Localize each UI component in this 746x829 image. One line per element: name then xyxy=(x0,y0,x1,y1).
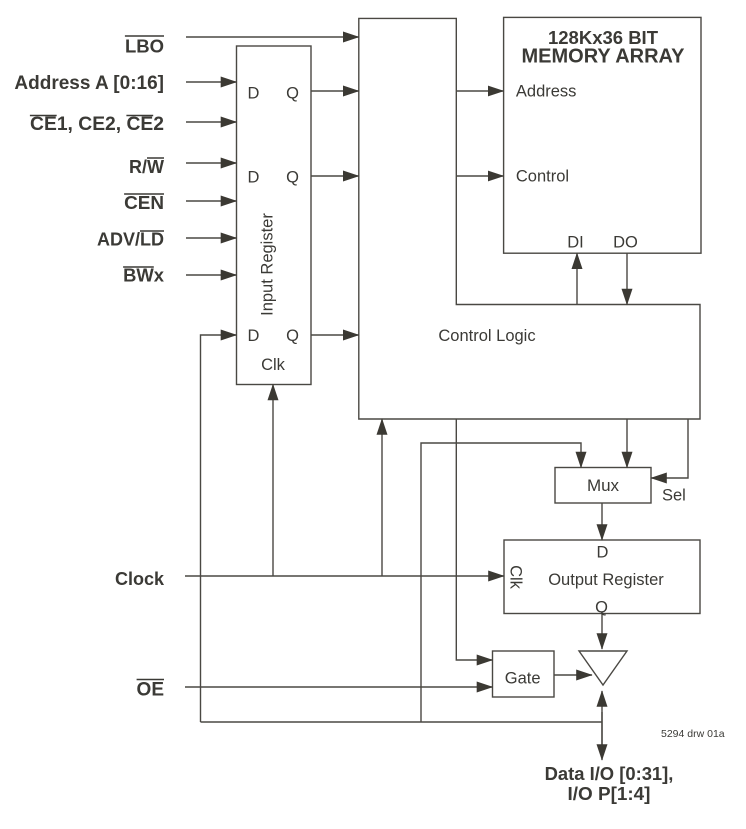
wire address bus to memory xyxy=(456,90,503,92)
svg-text:Mux: Mux xyxy=(587,476,620,495)
wire clock branch to control logic xyxy=(381,419,383,576)
svg-text:Control Logic: Control Logic xyxy=(438,327,535,345)
overline BW xyxy=(123,266,154,268)
wire write data bypass to mux xyxy=(421,443,581,722)
wire R/W input xyxy=(186,162,237,164)
wire clock branch to input register Clk xyxy=(272,385,274,577)
svg-text:Q: Q xyxy=(595,599,608,617)
svg-text:5294 drw 01a: 5294 drw 01a xyxy=(661,728,725,740)
overline W xyxy=(147,157,164,159)
wire I/O external down xyxy=(601,712,603,760)
svg-text:CEN: CEN xyxy=(124,193,164,214)
overline OE xyxy=(137,679,164,681)
wire control bus to memory xyxy=(456,175,503,177)
wire Address input xyxy=(186,81,237,83)
wire DI data in xyxy=(576,253,578,304)
wire DO data out xyxy=(626,253,628,304)
svg-text:D: D xyxy=(597,544,609,562)
wire LBO input xyxy=(186,36,359,38)
wire Q2 to control logic xyxy=(311,175,359,177)
wire output register Q to buffer xyxy=(601,614,603,650)
overline CEN xyxy=(124,193,164,195)
input register box U1 xyxy=(237,46,312,385)
svg-text:Data I/O [0:31],: Data I/O [0:31], xyxy=(545,763,674,784)
wire Q1 to control logic xyxy=(311,90,359,92)
svg-text:Clk: Clk xyxy=(261,356,286,374)
svg-text:Clk: Clk xyxy=(507,565,525,590)
wire bottom feedback xyxy=(201,721,603,723)
svg-text:D: D xyxy=(248,85,260,103)
svg-text:Control: Control xyxy=(516,168,569,186)
svg-text:R/W: R/W xyxy=(129,157,164,177)
control logic block U2 (L-shape) xyxy=(359,18,700,419)
svg-text:DI: DI xyxy=(567,234,584,252)
wire Clock line xyxy=(185,575,504,577)
svg-text:ADV/LD: ADV/LD xyxy=(97,230,164,250)
svg-text:Address: Address xyxy=(516,83,577,101)
wire I/O feedback up into buffer xyxy=(601,691,603,745)
svg-text:Output Register: Output Register xyxy=(548,571,664,589)
wire OE to gate xyxy=(185,686,493,688)
overline LD xyxy=(140,230,164,232)
overline CE1 xyxy=(30,115,57,117)
wire control logic to mux xyxy=(626,419,628,468)
output register box U5 xyxy=(504,540,700,614)
svg-text:DO: DO xyxy=(613,234,638,252)
svg-text:Q: Q xyxy=(286,169,299,187)
gate box U6 xyxy=(493,651,555,697)
wire control logic to gate xyxy=(456,419,492,660)
svg-text:LBO: LBO xyxy=(125,36,164,57)
svg-text:Address A [0:16]: Address A [0:16] xyxy=(14,73,164,94)
memory array box U3 xyxy=(504,17,701,253)
svg-text:D: D xyxy=(248,169,260,187)
wire CE input xyxy=(186,121,237,123)
output buffer tristate driver xyxy=(579,651,627,685)
overline CE2b xyxy=(126,115,153,117)
overline LBO xyxy=(125,35,164,37)
wire ADV/LD input xyxy=(186,237,237,239)
wire mux to output register D xyxy=(601,503,603,540)
svg-text:Q: Q xyxy=(286,85,299,103)
wire Sel from control logic xyxy=(651,419,688,478)
svg-text:Gate: Gate xyxy=(505,670,541,688)
wire CEN input xyxy=(186,200,237,202)
svg-text:Clock: Clock xyxy=(115,569,165,589)
mux box U4 xyxy=(555,468,651,504)
svg-text:MEMORY ARRAY: MEMORY ARRAY xyxy=(522,46,686,68)
wire data feedback to input register D xyxy=(201,335,237,722)
svg-text:Q: Q xyxy=(286,327,299,345)
svg-text:CE1, CE2, CE2: CE1, CE2, CE2 xyxy=(30,114,164,135)
svg-text:I/O P[1:4]: I/O P[1:4] xyxy=(568,784,651,805)
wire gate to buffer xyxy=(554,674,592,676)
svg-text:OE: OE xyxy=(137,680,164,701)
wire Q3 to control logic xyxy=(311,334,359,336)
wire BWx input xyxy=(186,274,237,276)
svg-text:D: D xyxy=(248,327,260,345)
svg-text:Sel: Sel xyxy=(662,487,686,505)
svg-text:Input Register: Input Register xyxy=(259,213,277,316)
